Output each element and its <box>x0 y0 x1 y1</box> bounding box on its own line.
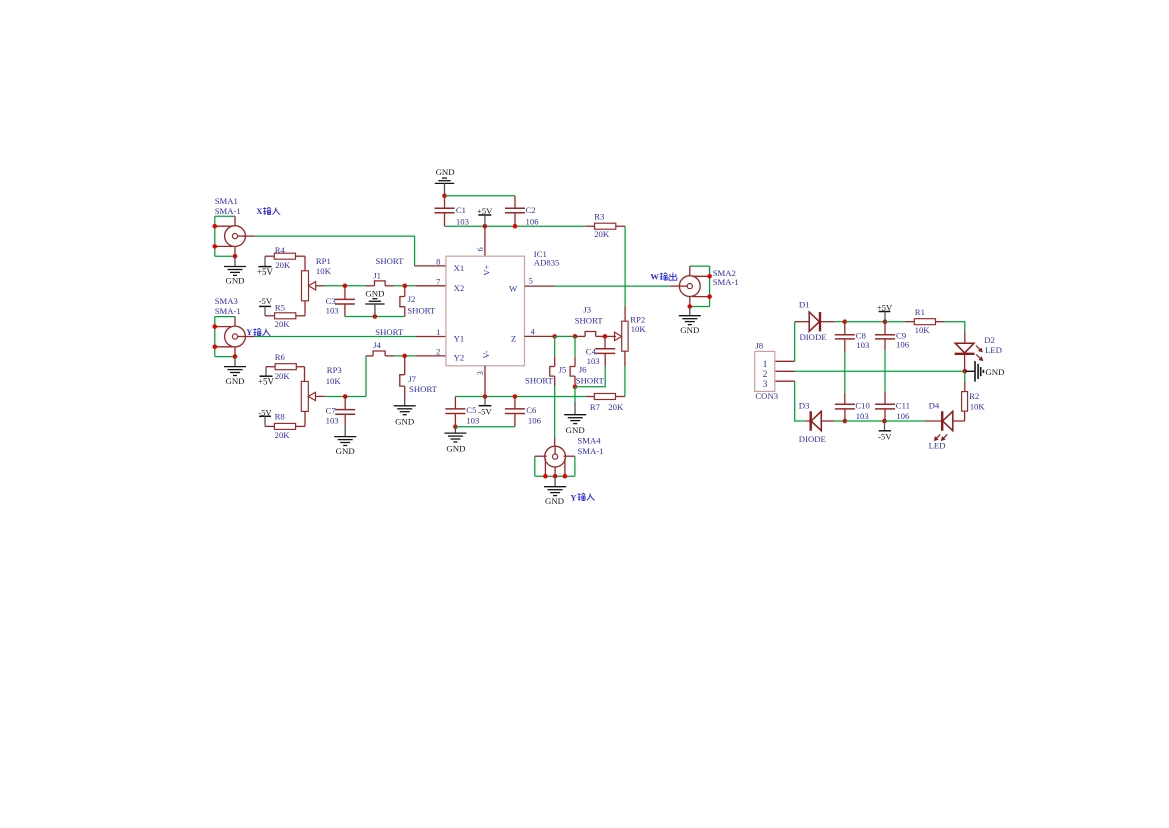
capacitor C11 <box>875 403 895 405</box>
svg-text:D1: D1 <box>799 299 810 309</box>
svg-text:Y1: Y1 <box>454 333 465 343</box>
svg-text:103: 103 <box>587 356 600 366</box>
svg-text:D4: D4 <box>929 401 940 411</box>
svg-text:R3: R3 <box>594 211 604 221</box>
svg-text:DIODE: DIODE <box>800 332 827 342</box>
+5V rail wire <box>445 225 586 227</box>
svg-text:J3: J3 <box>583 304 591 314</box>
svg-text:C2: C2 <box>526 205 536 215</box>
RP2 bottom wire to R7 <box>624 351 626 366</box>
D4 light arrows <box>941 434 947 440</box>
ground below C5 <box>454 427 456 433</box>
potentiometer RP1 <box>302 271 309 301</box>
jumper J6 <box>574 336 576 356</box>
svg-text:C7: C7 <box>326 406 337 416</box>
svg-text:-5V: -5V <box>878 431 892 441</box>
svg-text:Y2: Y2 <box>454 353 465 363</box>
svg-text:103: 103 <box>456 216 469 226</box>
svg-text:6: 6 <box>476 247 485 251</box>
wire gnd to C2 top <box>445 195 516 197</box>
J8 pin 2 stub <box>775 370 794 372</box>
svg-text:X2: X2 <box>454 283 465 293</box>
SMA2 connector / W output <box>679 276 700 297</box>
power -5V at pin 3 <box>484 397 486 406</box>
ground below SMA2 <box>689 307 691 316</box>
svg-text:J1: J1 <box>373 270 381 280</box>
resistor R5 <box>265 315 275 317</box>
svg-text:SHORT: SHORT <box>575 315 604 325</box>
svg-text:2: 2 <box>436 348 440 357</box>
svg-text:W: W <box>650 272 659 282</box>
svg-text:SMA-1: SMA-1 <box>215 206 241 216</box>
svg-text:J4: J4 <box>373 340 381 350</box>
svg-text:20K: 20K <box>275 260 291 270</box>
svg-text:LED: LED <box>985 345 1002 355</box>
wire D3 to -5V rail <box>835 420 845 422</box>
svg-text:10K: 10K <box>631 324 647 334</box>
svg-text:GND: GND <box>365 288 384 298</box>
jumper J5 <box>554 336 556 356</box>
svg-text:SMA3: SMA3 <box>215 296 238 306</box>
pin 8 stub <box>415 265 446 267</box>
svg-text:8: 8 <box>436 257 440 266</box>
jumper J7 <box>404 356 406 375</box>
svg-text:10K: 10K <box>915 325 931 335</box>
wire J1 to pin 7 <box>394 285 415 287</box>
pin 3 stub <box>484 366 486 397</box>
svg-text:C5: C5 <box>466 405 476 415</box>
capacitor C9 <box>884 322 886 335</box>
power -5V right <box>884 421 886 431</box>
svg-text:R1: R1 <box>915 307 925 317</box>
svg-text:GND: GND <box>336 446 355 456</box>
svg-text:SHORT: SHORT <box>525 375 554 385</box>
svg-text:SHORT: SHORT <box>409 384 438 394</box>
resistor R7 <box>586 396 595 398</box>
connector J8 CON3 <box>755 351 775 391</box>
svg-text:GND: GND <box>436 167 455 177</box>
svg-text:SHORT: SHORT <box>375 327 404 337</box>
J8 pin 3 stub <box>775 380 794 382</box>
wire Y input to IC pin 1 <box>245 336 254 338</box>
svg-text:GND: GND <box>545 496 564 506</box>
svg-text:C6: C6 <box>526 405 537 415</box>
svg-text:5: 5 <box>529 276 533 285</box>
svg-text:106: 106 <box>896 411 910 421</box>
capacitor C7 <box>344 397 346 410</box>
pin 2 stub <box>416 355 446 357</box>
jumper J2 <box>404 286 406 297</box>
svg-text:GND: GND <box>566 425 585 435</box>
svg-text:20K: 20K <box>275 319 291 329</box>
pin 7 stub <box>415 285 446 287</box>
svg-text:CON3: CON3 <box>755 391 778 401</box>
svg-text:SMA-1: SMA-1 <box>713 277 739 287</box>
svg-text:Z: Z <box>511 334 516 344</box>
J8 pin 1 stub <box>775 360 794 362</box>
diode D1 <box>809 312 819 331</box>
svg-text:R7: R7 <box>590 402 601 412</box>
wire pin3 down to D3 <box>795 381 807 421</box>
ground below J7 <box>404 399 406 406</box>
svg-text:J6: J6 <box>579 364 587 374</box>
potentiometer RP2 <box>622 321 628 351</box>
svg-text:103: 103 <box>326 306 339 316</box>
svg-text:J8: J8 <box>755 340 763 350</box>
power +5V for R4 <box>264 256 266 266</box>
svg-text:R8: R8 <box>275 411 286 421</box>
svg-text:106: 106 <box>896 339 910 349</box>
svg-text:RP3: RP3 <box>327 365 342 375</box>
resistor R8 <box>265 425 274 427</box>
svg-text:103: 103 <box>856 411 869 421</box>
svg-text:+5V: +5V <box>258 377 275 387</box>
svg-text:GND: GND <box>985 367 1004 377</box>
svg-text:D3: D3 <box>799 401 810 411</box>
svg-text:W: W <box>509 283 518 293</box>
svg-text:GND: GND <box>395 416 414 426</box>
svg-text:V+: V+ <box>481 265 491 276</box>
svg-text:GND: GND <box>680 325 699 335</box>
pin 5 stub and W output wire <box>525 285 555 287</box>
LED D2 <box>955 343 974 353</box>
svg-text:LED: LED <box>929 441 946 451</box>
svg-text:20K: 20K <box>275 430 291 440</box>
svg-text:SMA1: SMA1 <box>215 196 238 206</box>
svg-text:Y: Y <box>246 327 253 337</box>
resistor R2 <box>964 371 966 382</box>
ground below SMA1 <box>234 256 236 266</box>
svg-text:R4: R4 <box>275 245 286 255</box>
svg-text:X1: X1 <box>454 263 465 273</box>
svg-text:20K: 20K <box>594 229 610 239</box>
svg-text:106: 106 <box>528 415 542 425</box>
svg-text:SMA-1: SMA-1 <box>577 446 603 456</box>
svg-text:X: X <box>256 206 263 216</box>
svg-text:SMA-1: SMA-1 <box>215 306 241 316</box>
resistor R4 <box>265 255 274 257</box>
svg-text:+5V: +5V <box>257 267 274 277</box>
wire R1 to D2 <box>945 322 965 332</box>
jumper J3 <box>585 332 596 337</box>
svg-text:106: 106 <box>526 216 540 226</box>
svg-text:GND: GND <box>225 376 244 386</box>
capacitor C6 <box>514 397 516 409</box>
svg-text:SHORT: SHORT <box>376 256 405 266</box>
ground below SMA4 <box>554 476 556 486</box>
wire pin1 up to D1 <box>794 322 796 362</box>
svg-text:GND: GND <box>225 276 244 286</box>
wire RP3 wiper to J4 and C7 <box>325 396 366 398</box>
LED D4 <box>925 420 942 422</box>
svg-text:DIODE: DIODE <box>799 434 826 444</box>
svg-text:103: 103 <box>466 415 479 425</box>
svg-text:R2: R2 <box>969 391 979 401</box>
svg-text:J5: J5 <box>559 364 567 374</box>
ground right (sideways) <box>965 370 975 372</box>
-5V rail wire <box>455 396 585 398</box>
capacitor C4 <box>604 336 606 348</box>
ground below C7 <box>344 426 346 437</box>
svg-text:J7: J7 <box>408 374 416 384</box>
svg-text:Y: Y <box>570 492 577 502</box>
wire J4 to pin 2 <box>394 355 416 357</box>
svg-text:V-: V- <box>481 350 491 358</box>
svg-text:3: 3 <box>476 371 485 375</box>
svg-text:4: 4 <box>531 328 536 337</box>
svg-text:10K: 10K <box>970 401 986 411</box>
svg-text:-5V: -5V <box>259 296 273 306</box>
node X input net / SMA1 connector <box>225 226 246 247</box>
potentiometer RP3 <box>301 381 308 411</box>
svg-text:RP1: RP1 <box>316 256 331 266</box>
SMA4 connector / Y input bottom <box>545 446 566 467</box>
svg-text:7: 7 <box>436 278 440 287</box>
wire C4 bottom to J6 bottom <box>575 366 605 387</box>
svg-text:GND: GND <box>446 443 465 453</box>
pin 4 stub / Z net <box>525 335 555 337</box>
diode D3 <box>810 411 812 430</box>
J8 pin 2 gnd net wire <box>795 370 965 372</box>
wire X input to IC pin 8 <box>245 235 254 237</box>
wire up to J4 <box>365 356 367 397</box>
svg-text:SHORT: SHORT <box>576 375 605 385</box>
svg-text:C4: C4 <box>586 346 597 356</box>
svg-text:AD835: AD835 <box>534 258 560 268</box>
svg-text:J2: J2 <box>408 294 416 304</box>
wire J3 to RP2 wiper <box>605 335 616 337</box>
svg-text:C1: C1 <box>456 205 466 215</box>
svg-text:SHORT: SHORT <box>407 305 436 315</box>
svg-text:SMA4: SMA4 <box>577 436 601 446</box>
pin 6 stub <box>484 226 486 256</box>
svg-text:20K: 20K <box>275 371 291 381</box>
capacitor C10 <box>835 403 855 405</box>
svg-text:R5: R5 <box>275 303 285 313</box>
resistor R6 <box>266 366 275 368</box>
svg-text:-5V: -5V <box>478 406 492 416</box>
svg-text:10K: 10K <box>316 266 332 276</box>
svg-text:10K: 10K <box>326 376 342 386</box>
jumper J1 <box>366 285 375 287</box>
capacitor C3 <box>344 286 346 300</box>
svg-text:C11: C11 <box>896 401 910 411</box>
resistor R1 <box>905 321 914 323</box>
wire C3 bottom to J2 bottom <box>345 316 405 318</box>
svg-text:103: 103 <box>326 415 339 425</box>
wire RP1 wiper to pin 7 net <box>325 285 366 287</box>
svg-text:103: 103 <box>856 340 869 350</box>
wire D1 to +5V rail <box>835 321 845 323</box>
wire C5 bottom to C6 bottom <box>455 426 515 428</box>
power +5V for R6 <box>265 367 267 376</box>
svg-text:1: 1 <box>436 328 440 337</box>
resistor R3 <box>586 225 595 227</box>
wire R3 to RP2 top <box>624 226 626 306</box>
capacitor C2 <box>514 196 516 208</box>
svg-text:3: 3 <box>763 379 768 390</box>
svg-text:R6: R6 <box>275 352 286 362</box>
ground below SMA3 <box>234 357 236 367</box>
IC1 AD835 body <box>446 256 525 366</box>
wire J6 to gnd below rail <box>574 387 576 402</box>
capacitor C8 <box>844 322 846 335</box>
jumper J4 <box>373 351 385 356</box>
svg-text:C10: C10 <box>855 401 870 411</box>
svg-text:20K: 20K <box>608 402 624 412</box>
capacitor C1 <box>444 196 446 208</box>
capacitor C5 <box>454 397 456 409</box>
svg-text:D2: D2 <box>984 335 995 345</box>
ground below J6 wire <box>564 414 586 416</box>
SMA3 connector / Y input <box>225 326 246 347</box>
D2 light arrows <box>976 346 983 352</box>
wire J5 down to SMA4 <box>554 386 556 438</box>
pin 1 stub <box>416 336 446 338</box>
